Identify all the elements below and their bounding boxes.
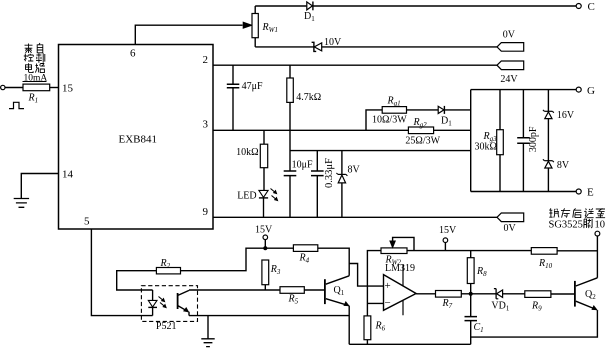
wire P521 emitter row (189, 315, 349, 317)
svg-text:E: E (587, 187, 594, 199)
transistor Q1 (325, 276, 349, 306)
wire input to R1 (5, 87, 23, 89)
wire pin14 to ground (21, 174, 58, 199)
svg-text:24V: 24V (500, 74, 518, 85)
svg-text:Q1: Q1 (334, 285, 345, 297)
resistor 4.7k branch (287, 65, 294, 171)
resistor R4 body (293, 245, 317, 252)
svg-text:9: 9 (203, 206, 209, 218)
svg-text:0.33μF: 0.33μF (324, 158, 335, 188)
wire Q1 emitter down (348, 306, 350, 345)
resistor R5 body (280, 287, 304, 294)
svg-text:R9: R9 (531, 300, 542, 312)
capacitor C1 (465, 294, 478, 345)
label input chinese (24, 43, 45, 73)
svg-text:300pF: 300pF (528, 126, 539, 152)
15V left terminal (263, 235, 268, 250)
svg-text:10μF: 10μF (292, 160, 313, 171)
terminal G circle (576, 87, 581, 92)
P521 LED (148, 290, 166, 316)
wire R7 to node (461, 293, 496, 295)
optocoupler P521 dashed box (141, 286, 197, 322)
capacitor C 47uF branch (227, 65, 240, 130)
svg-text:C1: C1 (474, 322, 484, 334)
terminal input circle (1, 85, 5, 89)
pulse symbol (9, 102, 24, 108)
resistor R9 body (525, 291, 551, 298)
wire Rg1 to D1 (407, 109, 439, 111)
flag 0V (bottom) (497, 213, 524, 222)
label latch text (549, 208, 605, 217)
wire collector row to Q1 base (189, 289, 280, 291)
P521 phototransistor (178, 290, 189, 315)
wire R4 to Q1 collector (318, 248, 349, 276)
resistor 10k branch (260, 130, 267, 190)
zener diode 8V (gate) (543, 159, 554, 191)
svg-text:5: 5 (84, 216, 90, 228)
resistor R1 body (23, 84, 50, 91)
ground (P521) (201, 316, 214, 347)
potentiometer Rw1 body (252, 14, 258, 38)
op-amp U2 LM319 (384, 265, 417, 316)
terminal E circle (576, 189, 581, 194)
svg-text:15: 15 (62, 82, 74, 94)
svg-text:10V: 10V (324, 37, 342, 48)
10mA underline (23, 81, 47, 83)
svg-text:10Ω/3W: 10Ω/3W (372, 114, 407, 125)
wire Rw1 bottom stub (254, 38, 256, 47)
wire 15V to R4 (265, 247, 293, 249)
wire secondary rail E (290, 150, 471, 152)
svg-text:D1: D1 (441, 115, 452, 127)
terminal SG3525 circle (595, 231, 600, 236)
svg-text:R1: R1 (28, 93, 39, 105)
svg-text:RW1: RW1 (262, 22, 278, 34)
capacitor 0.33uF (311, 151, 324, 218)
wire Rg2 to block (434, 129, 471, 131)
resistor Rg2 body (408, 127, 433, 134)
svg-text:R8: R8 (476, 266, 487, 278)
svg-text:10kΩ: 10kΩ (236, 147, 258, 158)
15V right terminal (443, 238, 448, 251)
svg-text:2: 2 (203, 54, 209, 66)
svg-text:G: G (587, 85, 595, 97)
resistor Rg3 30k (497, 90, 504, 192)
svg-text:R6: R6 (375, 320, 386, 332)
svg-text:8V: 8V (348, 164, 361, 175)
diode VD1 (494, 289, 503, 299)
resistor R3 (262, 260, 269, 290)
transistor Q2 (575, 278, 598, 311)
wire row2 to zener (255, 46, 314, 48)
wire bottom rail left (349, 343, 471, 345)
svg-text:R4: R4 (299, 253, 310, 265)
wire top row to D1 (255, 5, 306, 7)
wire zener to 0V flag (322, 46, 497, 48)
svg-text:8V: 8V (557, 160, 570, 171)
capacitor 10uF (284, 171, 297, 217)
svg-text:R5: R5 (288, 294, 299, 306)
resistor R7 body (436, 291, 462, 298)
resistor R6 (364, 316, 371, 344)
wire LM319 output (416, 293, 435, 295)
resistor R2 body (156, 268, 180, 274)
svg-text:EXB841: EXB841 (119, 134, 158, 146)
capacitor 300pF (517, 90, 530, 192)
wire Rg1 stub (366, 110, 382, 130)
resistor Rg1 body (382, 107, 406, 114)
wire pin2 row (213, 64, 497, 66)
potentiometer Rw2 (381, 237, 414, 253)
wire E rail (471, 191, 577, 193)
svg-text:C: C (588, 1, 595, 13)
svg-text:Q2: Q2 (585, 289, 596, 301)
node dot R7/R8/C1 (469, 292, 473, 296)
svg-text:Rg2: Rg2 (413, 117, 428, 129)
svg-text:0V: 0V (504, 223, 517, 234)
zener diode 16V (543, 90, 554, 161)
wire pin9 row (213, 216, 497, 218)
svg-text:30kΩ: 30kΩ (475, 142, 497, 153)
wire pin3 row (213, 129, 408, 131)
svg-text:0V: 0V (503, 30, 516, 41)
svg-text:+: + (385, 280, 391, 292)
svg-text:6: 6 (130, 48, 136, 60)
resistor R8 (467, 251, 474, 294)
wire jog to +input (349, 264, 383, 287)
svg-text:4.7kΩ: 4.7kΩ (296, 92, 321, 103)
svg-text:SG3525: SG3525 (549, 220, 583, 231)
wire SG3525 down to Q2 collector (596, 236, 598, 278)
resistor R10 body (531, 248, 557, 255)
diode D1 (top row) (307, 2, 313, 11)
wire R1 to pin15 (50, 87, 59, 89)
wire Rw1 top stub (254, 6, 256, 14)
wire R5 to base (304, 289, 325, 291)
wire pin5 down (91, 229, 152, 316)
wire 15V to R2 (181, 248, 266, 271)
svg-text:25Ω/3W: 25Ω/3W (405, 136, 440, 147)
terminal C circle (576, 4, 581, 9)
wire R2 to P521 LED (117, 271, 157, 290)
svg-text:LED: LED (237, 190, 256, 201)
wire R10 to SG3525 vertical (557, 250, 597, 252)
wire Rw2 left to -input and R6 (367, 251, 383, 316)
wire D1 to block (444, 109, 470, 111)
svg-text:R3: R3 (270, 264, 281, 276)
svg-text:Rg1: Rg1 (387, 96, 401, 108)
svg-text:−: − (385, 297, 391, 309)
wire G rail (471, 89, 577, 91)
flag 24V (497, 61, 524, 70)
svg-text:R2: R2 (160, 258, 171, 270)
wiper arrow into Rw1 (243, 22, 252, 28)
zener diode 10V (312, 42, 322, 51)
svg-text:16V: 16V (557, 110, 575, 121)
wire 15V rail right (407, 250, 531, 252)
LED indicator (259, 189, 278, 218)
svg-text:D1: D1 (304, 11, 315, 23)
ground (pin14) (14, 199, 29, 208)
gate block left vertical (470, 90, 472, 192)
svg-text:LM319: LM319 (385, 263, 415, 274)
wire R9 to Q2 base (551, 293, 575, 295)
svg-text:14: 14 (62, 169, 74, 181)
IC U1 EXB841 body (59, 45, 214, 230)
svg-text:R7: R7 (442, 298, 453, 310)
svg-text:R10: R10 (538, 258, 553, 270)
svg-text:47μF: 47μF (242, 81, 263, 92)
label jiao (584, 219, 592, 228)
svg-text:10: 10 (595, 220, 606, 231)
svg-text:10mA: 10mA (24, 74, 48, 84)
wire pin6 to wiper (135, 25, 242, 44)
svg-text:P521: P521 (156, 321, 177, 332)
svg-text:15V: 15V (439, 225, 457, 236)
wire D1 to terminal C (313, 5, 576, 7)
svg-text:VD1: VD1 (491, 301, 509, 313)
diode D1 (gate) (438, 106, 444, 114)
wire VD1 to R9 (503, 293, 525, 295)
svg-text:3: 3 (203, 118, 209, 130)
wire bottom rail right (471, 310, 598, 337)
zener diode 8V (mid) (336, 151, 347, 218)
svg-text:15V: 15V (255, 225, 273, 236)
flag 0V (top) (497, 43, 524, 52)
